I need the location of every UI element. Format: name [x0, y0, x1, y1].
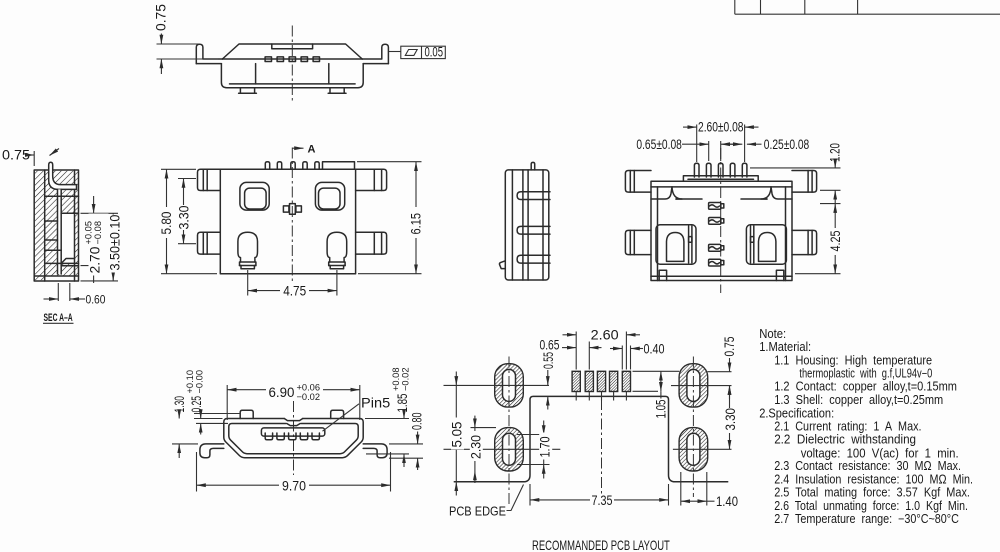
dim 3.30 line lower — [183, 230, 185, 244]
tongue ticks — [265, 433, 319, 436]
bottom left foot — [499, 261, 505, 269]
left tab upper — [198, 169, 221, 190]
ext pcb left down — [529, 484, 531, 506]
contact tab 2 — [277, 57, 283, 62]
platform pin seat line — [688, 178, 754, 180]
dim 0.60 arrow right — [70, 298, 85, 300]
inner horizontal mid1 — [45, 195, 79, 197]
svg-text:3.30: 3.30 — [176, 206, 192, 230]
pin 3 — [718, 163, 723, 177]
dim 3.30 text — [176, 206, 192, 230]
left tab lower folds — [202, 232, 204, 254]
clip 2 — [709, 218, 724, 225]
left solder lead hook — [196, 44, 222, 63]
clip 4 — [709, 259, 724, 266]
svg-text:A: A — [308, 144, 316, 156]
left tab lower — [198, 232, 221, 254]
dim 0.65 arrow left — [682, 143, 709, 145]
ext flange bottom right — [820, 189, 841, 191]
dim 3.50 line lower — [112, 240, 114, 281]
pin 1 — [694, 163, 699, 177]
svg-text:0.40: 0.40 — [644, 341, 665, 356]
dim 0.25 rotated text with tolerance — [185, 370, 205, 413]
section cut line A-A — [291, 148, 293, 284]
dim 2.30 arrow upper — [474, 416, 476, 428]
top pin 2 — [277, 162, 281, 170]
section hatch left wall — [35, 171, 45, 280]
contact tab 5 — [313, 57, 319, 62]
center contact detail mid — [290, 204, 296, 215]
inner horizontal mid2 — [45, 220, 58, 222]
section hatch bottom band — [45, 263, 79, 276]
right shoulder ledge — [771, 187, 792, 199]
contact bottom seat — [45, 262, 79, 264]
ext oval bl hole bottom right — [517, 464, 550, 466]
dim 6.15 text — [408, 213, 423, 235]
ext line shell left up — [33, 151, 35, 166]
ext line seam — [157, 58, 219, 60]
dim 6.15 line lower — [415, 238, 417, 274]
shell outer — [224, 419, 363, 458]
ext 9.70 right — [390, 452, 392, 492]
section hatch upper right band — [61, 196, 78, 213]
body outline — [221, 64, 363, 88]
left foot lip — [239, 92, 257, 94]
top pin 4 — [303, 162, 307, 170]
shell top edge with chamfers — [222, 44, 362, 59]
svg-text:2.30: 2.30 — [468, 435, 484, 459]
dim 2.70 lower arrow — [93, 266, 95, 283]
ext 6.90 right — [359, 385, 361, 420]
dim 0.75 arrow down — [729, 358, 731, 372]
dim 0.25 arrow left — [730, 143, 743, 145]
svg-text:2.70: 2.70 — [88, 246, 103, 273]
svg-text:2.Specification:: 2.Specification: — [759, 406, 834, 421]
solder leg left — [238, 232, 258, 268]
svg-text:0.75: 0.75 — [721, 336, 737, 356]
dim 0.75 text — [154, 4, 169, 31]
tongue contact 4 — [300, 436, 307, 440]
svg-text:5.80: 5.80 — [159, 212, 174, 235]
inner wall left — [44, 170, 46, 281]
svg-text:0.25±0.08: 0.25±0.08 — [764, 137, 810, 153]
right tab lower folds — [373, 232, 375, 254]
shell outer top seam dip — [284, 419, 302, 421]
dim 5.05 arrow upper — [455, 372, 457, 386]
rear wall line — [542, 170, 544, 280]
latch hole left spring notch — [689, 237, 692, 243]
ext lead bottom — [81, 265, 99, 267]
dim 4.25 text — [828, 230, 843, 251]
right lead underside — [363, 63, 388, 65]
bottom inner line — [651, 275, 792, 277]
dim 0.75 upper arrow — [160, 34, 162, 45]
body inner vertical left — [255, 64, 257, 84]
clip 3 — [709, 244, 724, 251]
dim 2.30 arrow lower — [474, 471, 476, 483]
svg-text:−0.02: −0.02 — [297, 392, 321, 402]
dim 0.80 arrow upper — [417, 432, 419, 444]
right inner wall — [785, 187, 787, 281]
bottom notch left — [659, 270, 666, 280]
dim 3.50 line upper — [112, 213, 114, 240]
section arrow — [292, 147, 303, 149]
ext 6.90 left — [226, 385, 228, 420]
dim 0.40 arrow right — [631, 348, 644, 350]
feature control frame box — [401, 46, 446, 58]
right tab lower — [356, 232, 387, 254]
ext plateau right — [357, 161, 422, 163]
dim 1.30 arrow lower — [178, 444, 180, 458]
finger tab mid — [517, 226, 550, 234]
finger tab bottom — [517, 255, 550, 263]
contact tab 1 — [265, 57, 271, 62]
inner horizontal mid3 — [45, 239, 58, 241]
ext 4.25 bottom — [795, 273, 841, 275]
svg-text:+0.08: +0.08 — [391, 367, 401, 391]
oval pad bottom-left — [495, 428, 524, 471]
pin 4 — [730, 163, 735, 177]
dim 0.75 lower arrow — [160, 59, 162, 74]
dim 1.70 rotated text — [538, 433, 553, 460]
dim 3.30 line lower — [729, 433, 731, 449]
dim 9.70 arrow left — [197, 484, 280, 486]
latch hole right spring strip — [750, 226, 752, 263]
dim 6.90 arrow right — [323, 389, 360, 391]
ext pin3 center up — [720, 141, 722, 161]
title block table fragment (top right) — [735, 0, 1000, 14]
oval hole bottom-left — [503, 433, 516, 465]
dim 5.05 mid line — [455, 385, 457, 481]
left lead underside — [196, 63, 221, 65]
svg-text:2.6 Total unmating force:: 2.6 Total unmating force: 1.0 Kgf Min. — [774, 499, 968, 513]
shell inner top seam dip — [287, 424, 300, 426]
svg-text:9.70: 9.70 — [282, 478, 306, 494]
section hatch top band — [45, 171, 79, 197]
oval centerline horizontals — [444, 385, 732, 449]
finger tab top — [517, 192, 550, 200]
dim 0.25 arrow right — [747, 143, 762, 145]
left tab upper folds — [202, 169, 204, 190]
ext 4.25 top — [820, 203, 841, 205]
ext pad5 bottom right — [633, 390, 659, 392]
inner top line — [651, 186, 792, 188]
svg-text:0.75: 0.75 — [2, 147, 30, 162]
ext body bottom left — [161, 273, 217, 275]
dim 1.70 arrow upper — [543, 421, 545, 435]
ext shell inner bottom right — [366, 453, 409, 455]
ext 9.70 left — [196, 452, 198, 492]
ext pin1 center up — [696, 125, 698, 163]
section hatch lower band — [45, 250, 62, 263]
dim 1.20 text — [828, 143, 843, 162]
center contact detail left — [283, 206, 289, 212]
oval pad top-left — [495, 364, 524, 407]
pin 2 — [706, 163, 711, 177]
svg-text:PCB EDGE: PCB EDGE — [449, 504, 506, 519]
dim 0.75 arrow up — [729, 386, 731, 399]
ext pad-top line right — [708, 371, 732, 373]
left flange folds — [629, 171, 631, 193]
bottom inner line — [34, 275, 78, 277]
tongue contact 2 — [277, 436, 284, 440]
dim 0.65 arrow right — [721, 143, 734, 145]
dim 7.35 arrow left — [530, 499, 590, 501]
dim 1.40 arrow right — [694, 500, 707, 502]
centerline — [291, 26, 293, 104]
top right plateau — [323, 162, 355, 170]
dim 1.20 arrow lower — [834, 190, 836, 204]
top pin 3 — [291, 162, 295, 170]
svg-text:1.85: 1.85 — [396, 393, 411, 412]
dim 2.60 arrow right — [626, 334, 640, 336]
dim 0.40 arrow left — [610, 348, 622, 350]
ext pin5 center up — [744, 125, 746, 163]
latch hole right spring notch — [751, 237, 754, 243]
svg-text:+0.05: +0.05 — [83, 221, 93, 245]
dim 1.05 arrow up — [660, 371, 662, 381]
dim 5.05 arrow lower — [455, 482, 457, 496]
top platform — [683, 176, 758, 182]
dim 6.15 line upper — [415, 162, 417, 207]
svg-text:2.7 Temperature range: −30°: 2.7 Temperature range: −30°C~80°C — [774, 512, 959, 526]
svg-text:SEC A–A: SEC A–A — [44, 311, 74, 323]
ext bottom right2 — [389, 457, 423, 459]
section outer rect — [34, 170, 78, 281]
ext oval bl hole top right — [517, 434, 550, 436]
dim 2.70 upper arrow — [93, 196, 95, 213]
ext tab mid lower — [178, 243, 196, 245]
ext pad5 edges up — [621, 346, 623, 370]
oval hole top-right — [687, 369, 700, 401]
side body — [505, 170, 549, 280]
dim 1.70 arrow lower — [543, 465, 545, 479]
clip 1 — [709, 203, 724, 210]
svg-text:+0.06: +0.06 — [297, 383, 321, 393]
svg-text:2.5 Total mating force: 3.: 2.5 Total mating force: 3.57 Kgf Max. — [774, 486, 970, 500]
solder leg right — [327, 232, 347, 268]
svg-text:2.60: 2.60 — [591, 327, 619, 342]
body inner vertical right — [328, 64, 330, 84]
left ledge curve — [672, 187, 682, 199]
pad 1 — [572, 371, 580, 391]
dim 0.55 arrow down — [547, 370, 549, 385]
ext bottom — [81, 280, 119, 282]
oval hole top-left — [503, 369, 516, 401]
ext 0.60 left — [57, 283, 59, 301]
svg-text:0.65±0.08: 0.65±0.08 — [636, 137, 682, 153]
tongue contact 1 — [265, 436, 272, 440]
front face line — [511, 170, 513, 280]
dim 4.25 line lower — [834, 255, 836, 274]
ext pcb right down — [668, 484, 670, 506]
dim 3.50 text — [107, 215, 123, 273]
oval pad bottom-right — [679, 428, 708, 471]
dim 1.85 arrow upper — [403, 414, 405, 419]
dim 0.75 rotated text — [721, 336, 737, 356]
svg-text:1.70: 1.70 — [538, 436, 553, 457]
svg-text:4.75: 4.75 — [283, 284, 306, 299]
ext shell top right — [365, 418, 409, 420]
dim 0.55 rotated text — [542, 352, 556, 369]
dim 3.30 rotated text — [723, 408, 738, 430]
svg-text:6.15: 6.15 — [408, 213, 423, 235]
solder leg left ridges — [241, 261, 255, 263]
dim 7.35 arrow right — [614, 499, 669, 501]
section hatch right wall — [75, 213, 79, 263]
svg-text:1.30: 1.30 — [173, 396, 187, 412]
dim 6.90 arrow left — [227, 389, 266, 391]
dim 5.80 line lower — [166, 238, 168, 274]
dim 0.65 arrow left — [562, 347, 576, 349]
oval pad top-right — [679, 364, 708, 407]
ext leg top right — [389, 443, 423, 445]
contact strip white channel — [58, 189, 62, 274]
shield hole left inner — [245, 188, 267, 209]
main body rect — [651, 181, 792, 280]
svg-text:2.2 Dielectric withstanding: 2.2 Dielectric withstanding — [774, 432, 916, 447]
dim 3.30 line upper — [183, 179, 185, 206]
ext body top left — [161, 168, 196, 170]
svg-text:0.65: 0.65 — [540, 337, 560, 353]
body inner bottom line — [230, 83, 356, 85]
dim 1.85 arrow lower — [403, 454, 405, 467]
svg-text:1.20: 1.20 — [828, 143, 843, 162]
latch hole right dome — [759, 233, 776, 262]
dim 0.25 arrow lower — [200, 423, 202, 434]
side tab right — [792, 230, 817, 254]
svg-text:Pin5: Pin5 — [361, 395, 390, 410]
oval hole bottom-right — [687, 433, 700, 465]
centerline — [293, 401, 295, 475]
dim 1.05 arrow down — [660, 382, 662, 392]
ext oval bl top left — [471, 427, 497, 429]
dim 0.80 rotated text — [411, 413, 425, 430]
left shoulder ledge — [651, 187, 672, 199]
ext tongue top — [81, 212, 119, 214]
dim 5.80 line upper — [166, 169, 168, 207]
dim 1.20 arrow upper — [834, 164, 836, 168]
ext pad5 up — [625, 332, 627, 370]
latch hole left outer — [656, 225, 696, 264]
shield hole right inner — [319, 188, 341, 209]
pin column lines — [522, 170, 524, 280]
top pin 5 — [315, 162, 319, 170]
seating seam line — [222, 58, 362, 60]
ext flange top right — [750, 167, 841, 169]
right solder lead hook — [362, 44, 388, 63]
dim 2.60 arrow left — [563, 334, 577, 336]
svg-text:−0.00: −0.00 — [195, 370, 205, 394]
svg-text:0.75: 0.75 — [154, 4, 169, 31]
ext shell top left — [194, 418, 223, 420]
pad 2 — [585, 371, 593, 391]
svg-text:3.50±0.10: 3.50±0.10 — [107, 215, 123, 271]
left foot — [240, 88, 254, 94]
leader to feature control frame — [389, 51, 401, 53]
right ledge extension — [741, 198, 767, 200]
ext line top — [157, 43, 201, 45]
top pin stub — [531, 162, 535, 170]
contact strip verticals — [57, 189, 59, 274]
feature control frame divider — [421, 46, 423, 58]
bottom notch right — [776, 270, 783, 280]
ext leg right — [336, 270, 338, 296]
lower lead line — [61, 265, 78, 267]
ext body bottom right — [358, 273, 422, 275]
svg-text:2.60±0.08: 2.60±0.08 — [698, 119, 744, 135]
svg-text:6.90: 6.90 — [269, 385, 295, 400]
svg-text:0.55: 0.55 — [542, 352, 556, 369]
svg-text:0.80: 0.80 — [411, 413, 425, 430]
dim 0.25 arrow upper — [200, 414, 202, 419]
ext tab mid upper — [178, 178, 196, 180]
dim 4.75 line left — [248, 290, 280, 292]
pin 5 — [742, 163, 747, 177]
dim 0.60 arrow left — [44, 298, 59, 300]
SEC A-A underline — [43, 322, 74, 324]
flatness symbol — [405, 50, 417, 56]
ext shell inner top left — [196, 422, 228, 424]
svg-text:voltage: 100 V(ac) for 1: voltage: 100 V(ac) for 1 min. — [801, 446, 959, 461]
solder leg right ridges — [330, 261, 344, 263]
PCB outline top/left/right — [454, 396, 727, 481]
svg-text:0.60: 0.60 — [86, 294, 106, 307]
svg-text:−0.02: −0.02 — [401, 367, 411, 391]
contact tab 3 — [289, 57, 295, 62]
ext oval br left down — [680, 472, 682, 506]
latch hole left dome — [667, 233, 684, 262]
inner horizontal at tongue top — [61, 212, 78, 214]
top tab right — [331, 410, 344, 418]
shell inner — [229, 424, 358, 454]
ext oval br right down — [706, 472, 708, 506]
latch hole left spring strip — [688, 226, 690, 263]
dim 2.70 text with tolerance — [83, 214, 108, 276]
bottom tip hatch notch — [61, 259, 74, 264]
left ledge extension — [676, 198, 702, 200]
PCB EDGE leader — [507, 485, 524, 511]
left flange plate — [625, 171, 651, 193]
ext pad1 up — [575, 332, 577, 370]
ext pad5 top right — [633, 370, 680, 372]
right tab upper folds — [373, 169, 375, 190]
section hatch mid left band — [45, 196, 58, 250]
center contact detail right — [296, 206, 302, 212]
side tab left — [625, 230, 651, 254]
pcb centerline vertical — [601, 399, 603, 497]
dim 2.60 arrow left — [683, 126, 697, 128]
dim 1.40 tail — [707, 500, 715, 502]
latch hole right outer — [746, 225, 786, 264]
dim 0.65 arrow right — [589, 347, 601, 349]
dim 2.30 rotated text — [468, 431, 484, 461]
body outline — [220, 169, 355, 274]
ext tab top left — [194, 413, 240, 415]
tongue contact 3 — [289, 436, 296, 440]
top tab left — [240, 410, 253, 418]
dim 4.25 line upper — [834, 204, 836, 228]
contact tab 4 — [301, 57, 307, 62]
svg-text:RECOMMANDED PCB LAYOUT: RECOMMANDED PCB LAYOUT — [532, 538, 670, 552]
right flange folds — [807, 171, 809, 193]
right flange plate — [792, 171, 817, 193]
left inner wall — [657, 187, 659, 281]
dim 5.05 rotated text — [449, 418, 464, 450]
svg-text:7.35: 7.35 — [592, 493, 613, 508]
top pin 1 — [265, 162, 269, 170]
svg-text:2.3 Contact resistance: 30: 2.3 Contact resistance: 30 MΩ Max. — [774, 459, 961, 473]
